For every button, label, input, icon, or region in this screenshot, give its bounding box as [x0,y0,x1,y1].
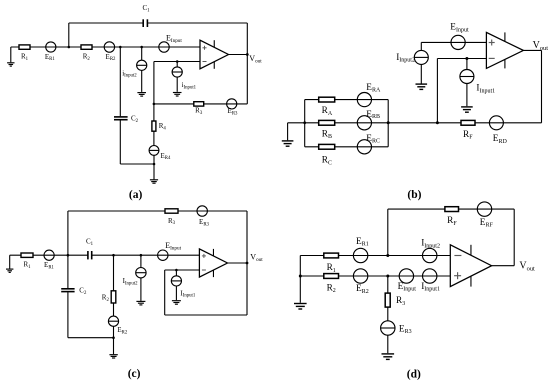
voltage source ER2 (c) [108,303,127,338]
wire: top feedback line (d) [388,208,514,210]
wire: right vertical (c) [246,211,248,315]
capacitor C2 (c) [61,287,87,296]
voltage source ER2 (a) [104,42,116,62]
svg-text:(a): (a) [129,189,143,201]
wire: inverting input line (a) [154,62,200,104]
wire: right vertical to output (d) [492,209,515,266]
ground of IInput2 (b) [416,84,428,89]
voltage source ER3 (d) [381,307,412,353]
wire: output vertical (a) [246,23,248,104]
node Vout (a) [246,53,262,64]
wire: inverting input loop (c) [165,270,247,315]
voltage source ERD (b) [489,116,507,145]
node: junction left vertical (c) [67,254,70,257]
caption (d) [407,368,421,380]
current source IInput2 (b) [396,42,428,83]
capacitor C1 (c) [86,238,94,260]
caption (a) [129,189,143,201]
wire: op-amp output (c) [228,262,248,264]
resistor RF (b) [461,120,475,140]
node: feedback junction (a) [153,103,156,106]
current source iInput2 (a) [122,47,147,92]
node: junction IInput1 (c) [175,269,178,272]
node: junction IInput2 (c) [140,254,143,257]
node: junction R2 branch (c) [112,254,115,257]
wire: C2 lower vertical and bottom return (c) [68,292,114,338]
voltage source ER2 (d) [353,269,368,295]
ground (a) left [7,47,14,66]
current source IInput1 (d) [421,269,440,293]
wire: resistor bank left vertical (b) [304,100,306,147]
wire: main input line (a) [11,46,200,48]
op-amp U2 (b) [486,32,523,68]
node Vout (d) [519,261,535,273]
svg-text:(c): (c) [128,368,141,380]
ground (b) left [282,123,305,146]
resistor RB (b) [319,120,335,140]
ground of ER2 branch (c) [109,355,117,358]
resistor R1 (c) [21,253,33,270]
wire: inverting input line (d) [300,255,450,257]
ground of iInput1 (a) [173,93,182,97]
wire: left vertical to C1 line (a) [68,23,70,47]
wire: resistor bank right vertical (b) [387,100,389,147]
wire: C1 top feedback line (a) [69,22,248,24]
wire: main input line (c) [10,254,200,256]
ground (d) left [294,304,307,310]
node Vout (c) [246,252,264,264]
resistor R3 (a) [194,102,204,116]
ground of ER4 branch (a) [150,180,158,183]
caption (b) [407,189,421,201]
current source IInput2 (d) [421,239,440,263]
voltage source EInput (d) [398,269,417,293]
wire: op-amp output (b) [523,50,541,122]
voltage source ER3 (c) [197,206,210,228]
node: junction C2 return with R4 branch (a) [153,163,156,166]
node: feedback junction (d) [386,254,389,257]
wire: non-inverting input line (b) [421,41,486,43]
wire: down to ground (a) [153,164,155,179]
wire: down to ground (c) [113,338,115,355]
resistor RC (b) [319,144,335,166]
resistor R3 (c) [165,209,178,226]
node: junction IInput1 (b) [465,57,468,60]
wire: non-inverting input line (d) [300,275,450,277]
wire: inverting input line (b) [437,59,486,123]
capacitor C2 (a) [114,115,139,124]
wire: branch B line (b) [305,122,389,124]
current source IInput2 (c) [123,255,147,301]
voltage source ER3 (a) [227,99,238,117]
ground of IInput1 (c) [172,301,181,305]
node: junction of i_input2 (a) [140,46,143,49]
node: junction of C2 branch (a) [119,46,122,49]
wire: left vertical through to C2 (c) [67,211,69,288]
wire: feedback vertical (d) [387,209,389,255]
voltage source EInput (b) [450,23,469,50]
current source IInput1 (c) [171,270,196,300]
resistor R2 (a) [81,45,92,62]
node: junction bottom return (c) [112,336,115,339]
voltage source ER1 (a) [45,42,56,62]
resistor R1 (d) [324,253,339,274]
ground of IInput1 (b) [461,107,473,112]
wire: C2 branch vertical (a) [119,47,121,116]
node: inverting branch junction (b) [436,121,439,124]
ground of iInput2 (a) [137,93,146,97]
node: bank right tee (b) [387,121,390,124]
wire: top feedback line (c) [68,210,247,212]
ground (c) left [6,255,13,272]
voltage source ER1 (c) [44,250,55,270]
op-amp U3 (c) [199,249,227,277]
voltage source ER4 (a) [149,131,171,164]
resistor R2 (c) [102,255,116,303]
node: junction of C1 branch with input line (a) [68,46,71,49]
ground of ER3 branch (d) [382,354,395,360]
node: left tee (d) [299,275,302,278]
node: junction of i_input1 (a) [176,60,179,63]
voltage source ERC (b) [357,134,380,154]
voltage source EInput (c) [158,241,182,261]
resistor R1 (a) [19,45,30,62]
voltage source ERA (b) [357,83,381,107]
resistor R4 (a) [152,104,166,131]
resistor R2 (d) [324,274,339,295]
svg-text:(d): (d) [407,368,421,380]
resistor R3 (d) [385,276,405,307]
wire: branch C line (b) [305,146,389,148]
node Vout (b) [533,40,549,52]
voltage source ER1 (d) [353,237,368,263]
node: bank left tee (b) [303,121,306,124]
resistor RF (d) [445,207,459,227]
resistor RA (b) [319,97,335,117]
ground of IInput2 (c) [136,301,145,305]
voltage source ERB (b) [357,110,380,130]
wire: branch A line (b) [305,99,389,101]
voltage source ERF (d) [477,202,493,229]
wire: feedback line (a) [154,103,247,105]
voltage source EInput (a) [159,33,183,52]
node: R3 junction (d) [386,275,389,278]
caption (c) [128,368,141,380]
wire: C2 lower vertical and bottom return (a) [120,120,154,164]
current source iInput1 (a) [172,62,197,92]
wire: op-amp output (a) [229,54,248,56]
op-amp U4 (d) [450,245,491,287]
capacitor C1 [143,4,151,27]
wire: left vertical (d) [299,256,301,303]
wire: middle line to output (b) [388,122,541,124]
op-amp U1 (a) [200,40,229,69]
svg-text:(b): (b) [407,189,421,201]
current source IInput1 (b) [460,59,495,107]
